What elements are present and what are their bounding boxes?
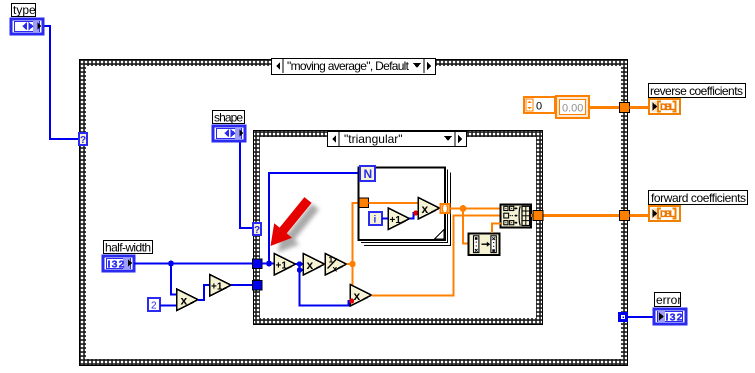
increment +1 (inner) [274, 254, 303, 276]
indicator label error [655, 293, 682, 308]
increment +1 (outer) [210, 275, 253, 297]
svg-text:x: x [307, 258, 314, 272]
coercion dot on 1/x [324, 262, 329, 267]
svg-text:?: ? [80, 135, 86, 146]
svg-text:i: i [374, 215, 377, 226]
svg-text:"moving average", Default: "moving average", Default [287, 59, 410, 73]
svg-text:DBL: DBL [660, 102, 675, 113]
error tunnel on outer border [618, 312, 654, 322]
wire type to outer case selector [43, 26, 79, 139]
case selector terminal ? (outer) [79, 133, 87, 146]
svg-text:N: N [364, 167, 373, 181]
indicator label reverse coefficients [649, 84, 746, 99]
build array [501, 205, 532, 228]
red annotation arrow shadow [278, 204, 319, 253]
enum control shape [213, 126, 245, 141]
reverse 1d array [469, 234, 500, 256]
control label half-width [104, 241, 153, 255]
tunnel orange outer right (reverse) [620, 103, 650, 113]
svg-text:DBL: DBL [660, 209, 675, 220]
svg-text:I32: I32 [666, 312, 683, 324]
indicator reverse coefficients [DBL] [649, 99, 680, 114]
multiply x (center coefficient) [349, 285, 371, 307]
indicator error I32 [654, 309, 686, 324]
tunnel orange outer right (forward) [620, 211, 650, 221]
inner case selector label "triangular" [328, 132, 467, 147]
svg-text:type: type [13, 3, 36, 17]
case selector terminal ? (inner) [253, 223, 261, 236]
tunnel orange inner right [533, 211, 543, 221]
array constant (reverse coefficients source) [524, 96, 589, 118]
inner case structure border [254, 131, 543, 325]
multiply x (in loop) [418, 198, 439, 220]
svg-text:0.00: 0.00 [562, 103, 583, 115]
svg-text:x: x [422, 202, 429, 216]
wire reverse array to build array row3 [492, 224, 501, 234]
wire half-width to tunnel [134, 263, 253, 265]
wire junction half-width [168, 261, 176, 295]
wire T1 to +1 and N [262, 173, 361, 267]
numeric constant 2 [148, 298, 176, 312]
outer case selector label "moving average", Default [272, 59, 436, 75]
loop input tunnel (orange) [359, 198, 418, 208]
svg-text:half-width: half-width [105, 241, 151, 255]
svg-text:shape: shape [214, 111, 243, 125]
wire array constant to outer tunnel [589, 106, 620, 109]
red annotation arrow [271, 197, 312, 246]
orange wire from 1/x to for loop tunnel and down [347, 203, 360, 290]
increment +1 (in loop) [388, 208, 418, 230]
tunnel T2 into inner case [253, 281, 263, 291]
svg-text:x: x [333, 264, 338, 274]
tunnel T1 half-width into inner case [253, 259, 263, 269]
reciprocal 1/x [325, 254, 346, 276]
indicator label forward coefficients [649, 191, 748, 206]
svg-text:?: ? [254, 225, 260, 236]
svg-text:+1: +1 [211, 282, 223, 293]
multiply x (inner) [303, 254, 324, 276]
svg-text:reverse coefficients: reverse coefficients [650, 84, 743, 98]
orange wire center coefficient to build array row2 [372, 216, 502, 296]
control label type [12, 3, 37, 17]
svg-text:x: x [354, 289, 361, 303]
for loop [359, 168, 451, 246]
svg-text:2: 2 [151, 301, 157, 312]
blue wire to center multiply [300, 270, 351, 306]
svg-text:0: 0 [536, 101, 542, 113]
control label shape [213, 111, 245, 125]
auto-index tunnel [] [441, 204, 450, 213]
svg-text:error: error [656, 293, 681, 307]
N terminal [360, 166, 375, 181]
svg-text:"triangular": "triangular" [344, 132, 403, 146]
svg-text:forward coefficients: forward coefficients [651, 191, 746, 205]
orange wire loop output to build array [450, 205, 501, 243]
svg-text:I32: I32 [108, 259, 125, 271]
multiply x (outer) [177, 285, 209, 311]
enum control type [11, 19, 43, 34]
svg-text:+1: +1 [390, 215, 402, 226]
i terminal [369, 212, 388, 226]
wire build array to inner tunnel [531, 214, 620, 217]
wire shape to inner case selector [240, 141, 253, 228]
I32 control half-width [103, 256, 134, 271]
svg-text:x: x [181, 294, 188, 308]
outer case structure border [80, 60, 628, 366]
indicator forward coefficients [DBL] [649, 206, 680, 221]
svg-text:+1: +1 [276, 261, 288, 272]
